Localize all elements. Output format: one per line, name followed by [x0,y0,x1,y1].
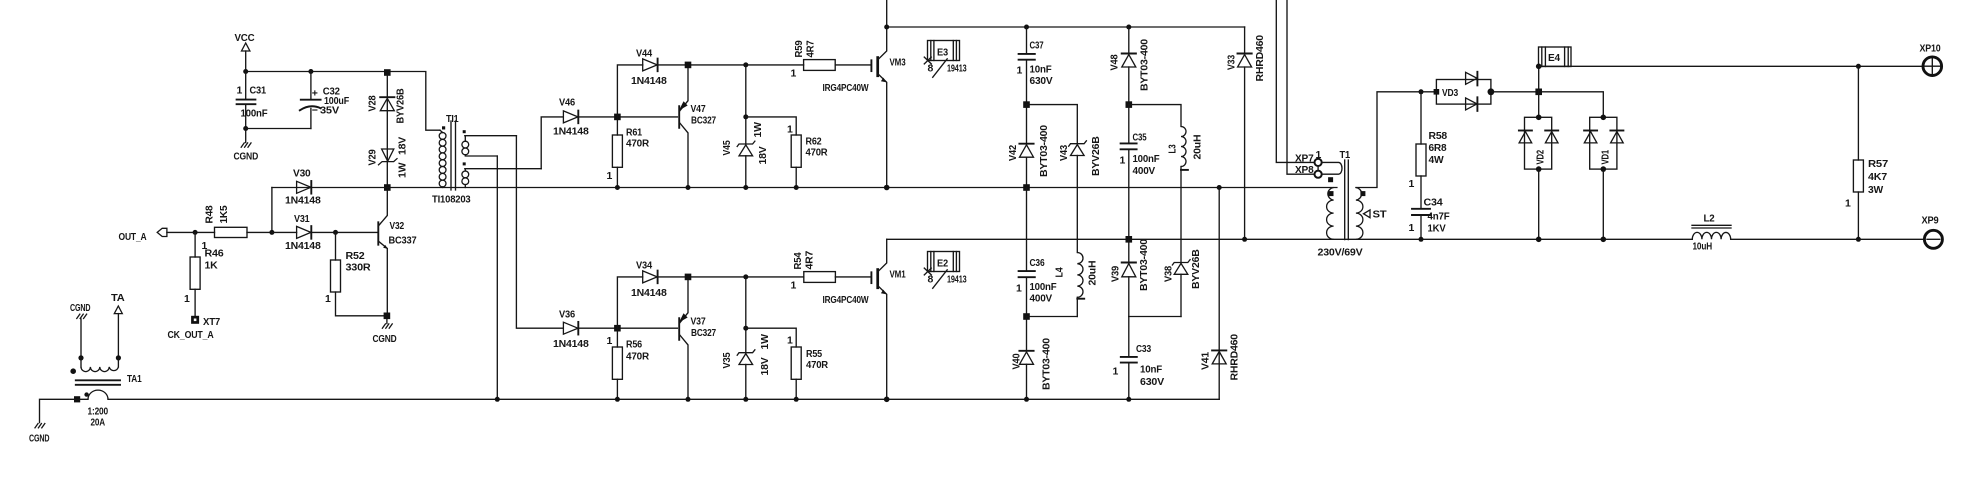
svg-text:1: 1 [1409,222,1415,234]
capacitor C34 4n7F 1KV [1409,197,1451,240]
svg-text:E4: E4 [1548,52,1560,64]
wire T11 sec1 top to V36 row [516,136,563,329]
package E4 [1539,47,1572,67]
node V48 on top rail [1126,25,1131,30]
svg-text:3W: 3W [1868,184,1883,196]
svg-text:OUT_A: OUT_A [119,231,147,243]
wire C36 junction to L4 [1027,316,1078,318]
svg-text:V43: V43 [1058,145,1070,161]
zener V42 BYT03-400 [1007,105,1050,188]
svg-text:1: 1 [787,124,793,136]
svg-text:1W: 1W [759,334,771,350]
svg-text:BYT03-400: BYT03-400 [1138,239,1150,291]
node V45 top junction [743,62,748,67]
transistor V47 BC327 [679,68,716,187]
node V45 mid junction [743,114,748,119]
node V31-R52 junction [333,230,338,235]
svg-text:1: 1 [1120,155,1126,167]
power symbol VCC [235,32,256,72]
port XP10 [1920,43,1942,76]
svg-text:1N4148: 1N4148 [553,126,589,138]
node VM3 collector on top rail [884,25,889,30]
node V40 on bottom rail [1024,397,1029,402]
port XP9 [1922,215,1943,249]
diode V40 BYT03-400 [1011,317,1053,400]
zener V45 18V 1W [721,65,769,188]
node R57 top junction [1856,64,1861,69]
svg-text:L4: L4 [1054,267,1066,277]
zener V29 18V 1W [367,137,409,178]
node OUT_A junction [193,230,198,235]
diode V28 BYV26B [367,88,407,124]
svg-text:V39: V39 [1110,266,1122,282]
svg-text:1: 1 [607,170,613,182]
svg-text:TA: TA [111,292,125,304]
svg-text:R58: R58 [1429,130,1448,142]
svg-text:V34: V34 [636,260,652,272]
wire E4 riser [1538,66,1540,117]
resistor R58 6R8 4W [1409,92,1448,209]
svg-text:BYV26B: BYV26B [1190,249,1202,289]
svg-text:TA1: TA1 [127,373,142,385]
wire V36 to junction and base [578,327,678,329]
wire C31-C32 bottom link [246,128,311,130]
svg-text:V30: V30 [293,168,311,180]
node V42 bottom on mid rail [1023,184,1030,191]
diode V46 1N4148 [553,97,589,138]
node C37 on top rail [1024,25,1029,30]
svg-text:1: 1 [1017,65,1023,77]
wire riser to V34 row [617,277,642,328]
wire snubber rail y239 [887,238,1693,240]
node V28 top junction [384,69,391,76]
node V46-R61 junction [614,114,621,121]
wire V39-V38 tie [1129,316,1181,318]
inductor L2 10uH [1692,213,1731,253]
svg-text:TI108203: TI108203 [432,194,471,206]
svg-text:1N4148: 1N4148 [631,287,667,299]
node C37 bottom junction [1023,101,1030,108]
node VM3 emitter on mid rail [884,185,890,191]
node C35 bottom junction [1126,236,1133,243]
svg-text:ST: ST [1373,209,1388,221]
svg-text:V40: V40 [1011,353,1023,369]
node VD2 on snubber rail [1536,237,1542,243]
svg-text:VD1: VD1 [1600,150,1612,165]
resistor R46 1K [184,232,224,315]
svg-text:V31: V31 [294,213,310,225]
transformer TA1 current transformer [70,358,141,429]
svg-text:4n7F: 4n7F [1428,211,1451,223]
zener V38 BYV26B [1163,249,1202,317]
wire secondary top to VD3 riser [1356,92,1437,188]
capacitor C35 100nF 400V [1120,105,1161,240]
svg-text:TI1: TI1 [446,113,459,125]
IGBT VM1 IRG4PC40W [823,239,906,399]
svg-text:T1: T1 [1340,149,1351,161]
wire mid rail A [272,187,1337,189]
node R56 on bottom rail [615,397,620,402]
svg-text:1K5: 1K5 [218,205,230,223]
node VD1 on snubber rail [1601,237,1607,243]
svg-text:V41: V41 [1200,352,1212,370]
capacitor C32 electrolytic [300,72,350,129]
svg-text:L2: L2 [1704,213,1715,225]
node V41 top on mid rail [1217,185,1222,190]
node lower rail x497 [495,397,500,402]
node C31 bottom junction [243,126,248,131]
node C33 on bottom rail [1126,397,1131,402]
capacitor C36 100nF 400V [1016,188,1057,317]
svg-text:+: + [312,88,318,100]
transformer T1 [1318,92,1437,259]
node V35 top junction [743,274,748,279]
svg-text:C31: C31 [250,85,267,97]
wire T11 sec2 top to V46 row [541,117,563,169]
secondary winding [1356,188,1363,240]
resistor R52 330R [325,232,387,315]
secondary top winding [463,130,466,133]
rectifier VD1 [1584,115,1623,240]
svg-text:10uH: 10uH [1693,241,1713,253]
diode V33 RHRD460 [1225,27,1266,239]
svg-text:1: 1 [237,85,243,97]
core [1345,160,1349,240]
node TA1 secondary right [116,355,121,360]
wire V46 to junction and base [578,116,678,118]
svg-text:18V: 18V [396,137,408,155]
node V33 bottom junction [1242,237,1247,242]
svg-text:C34: C34 [1424,197,1443,209]
svg-text:330R: 330R [346,262,372,274]
port OUT_A [119,228,215,243]
svg-text:CGND: CGND [234,151,259,163]
node C34 on snubber rail [1419,237,1424,242]
node V32 emitter junction [384,313,391,320]
svg-text:R56: R56 [626,339,642,351]
svg-text:CGND: CGND [29,433,50,445]
svg-text:XP8: XP8 [1295,164,1314,176]
zener V35 18V 1W [721,277,771,399]
node V47 emitter junction [685,62,692,69]
svg-text:L3: L3 [1167,144,1179,153]
svg-text:1N4148: 1N4148 [285,240,321,252]
node VCC-C31 junction [243,69,248,74]
node E4 bottom left junction [1536,64,1542,70]
svg-text:470R: 470R [806,359,829,371]
diode V41 RHRD460 [1200,334,1241,381]
secondary bottom winding [463,162,466,165]
svg-text:R52: R52 [346,250,365,262]
svg-text:R59: R59 [793,40,805,57]
IGBT VM3 IRG4PC40W [823,0,906,188]
wire T11 sec1 bottom to lower rail [496,156,498,399]
svg-text:VCC: VCC [235,32,256,44]
node V35 mid junction [743,326,748,331]
node VCC-C32 junction [308,69,313,74]
svg-text:100nF: 100nF [1030,281,1058,293]
node V48 bottom junction [1126,101,1133,108]
resistor R48 1K5 [202,205,272,252]
node V37 emitter junction [685,274,692,281]
svg-text:1N4148: 1N4148 [631,75,667,87]
package E3 8/19413 [924,41,967,78]
pad XT7 CK_OUT_A [168,316,221,341]
wire riser to V44 row [617,65,642,117]
wire XP7 feed [1276,0,1314,162]
resistor R54 4R7 [791,250,872,291]
wire L2 to XP9 [1731,238,1924,240]
package E2 8/19413 [924,252,967,289]
svg-text:100nF: 100nF [1133,153,1161,165]
wire V44 row [657,64,803,66]
svg-text:1W: 1W [752,122,764,138]
svg-text:4R7: 4R7 [804,250,816,269]
diode V39 BYT03-400 [1110,239,1151,317]
svg-text:20A: 20A [91,417,106,429]
diode V48 BYT03-400 [1109,27,1151,105]
svg-text:RHRD460: RHRD460 [1254,35,1266,82]
svg-text:CK_OUT_A: CK_OUT_A [168,329,215,341]
svg-text:V48: V48 [1109,54,1121,70]
svg-text:VD3: VD3 [1442,87,1458,99]
inductor L4 20uH [1054,253,1099,317]
node V35 on bottom rail [743,397,748,402]
wire OUT_A lead [167,231,215,233]
node R55 on bottom rail [794,397,799,402]
svg-text:1N4148: 1N4148 [285,195,321,207]
svg-text:1: 1 [787,335,793,347]
pin XP7 [1295,149,1322,166]
svg-text:470R: 470R [626,138,650,150]
svg-text:1: 1 [607,335,613,347]
svg-text:1: 1 [1016,283,1022,295]
pin XP8 [1295,164,1322,178]
svg-text:BYT03-400: BYT03-400 [1040,338,1052,390]
svg-text:V44: V44 [636,48,652,60]
resistor R55 470R [787,335,829,400]
svg-text:V47: V47 [691,103,706,115]
svg-text:19413: 19413 [947,274,967,286]
wire VD3 to VD1 riser [1491,92,1603,118]
svg-text:V46: V46 [559,97,575,109]
node R57 on snubber rail [1856,237,1861,242]
svg-text:CGND: CGND [373,333,397,345]
svg-text:20uH: 20uH [1087,261,1099,286]
svg-text:1K: 1K [205,260,219,272]
svg-text:20uH: 20uH [1192,135,1204,160]
wire top rail [887,26,1245,28]
wire R48 junction riser [271,188,273,233]
node E4-VD2 junction [1535,89,1542,96]
ground CGND bottom left [29,423,50,445]
svg-text:1: 1 [1409,178,1415,190]
svg-text:630V: 630V [1140,376,1164,388]
svg-text:XP9: XP9 [1922,215,1939,227]
svg-text:V38: V38 [1163,266,1175,282]
diode V34 1N4148 [631,260,667,300]
svg-text:V29: V29 [367,149,379,165]
node C36 bottom junction [1023,313,1030,320]
zener V43 BYV26B [1058,136,1102,253]
wire E4 to XP10 [1539,65,1922,67]
svg-text:8: 8 [928,63,934,75]
ground CGND under V32 [373,319,397,345]
svg-text:6R8: 6R8 [1429,142,1447,154]
capacitor C31 [237,72,269,129]
svg-text:V32: V32 [390,220,405,232]
svg-text:10nF: 10nF [1030,64,1053,76]
rectifier VD3 [1434,72,1495,111]
primary top section XP7-XP8 loop [1322,162,1342,174]
wire V28-V29 column [386,75,388,188]
svg-text:E3: E3 [937,47,948,59]
diode V44 1N4148 [631,48,667,88]
wire V31 to V32 base [272,231,378,233]
svg-text:R48: R48 [204,205,216,223]
resistor R57 4K7 3W [1845,66,1888,239]
resistor R62 470R [787,124,828,188]
svg-text:8: 8 [928,274,934,286]
svg-text:V45: V45 [721,140,733,155]
svg-text:1N4148: 1N4148 [553,338,589,350]
svg-text:230V/69V: 230V/69V [1318,247,1363,259]
wire bottom rail [108,398,1219,400]
svg-text:1: 1 [325,293,331,305]
capacitor C33 10nF 630V [1113,317,1165,400]
node V37 collector on bottom rail [686,397,691,402]
svg-text:IRG4PC40W: IRG4PC40W [823,82,869,94]
wire V48 junction to L3 [1129,105,1181,127]
svg-text:BC337: BC337 [389,235,417,247]
node V29 bottom junction on mid rail [384,184,391,191]
svg-text:VD2: VD2 [1535,150,1547,165]
svg-text:XT7: XT7 [203,316,220,328]
svg-text:100nF: 100nF [241,108,269,120]
svg-text:1: 1 [791,68,797,80]
wire V35 to R55 [746,328,796,347]
node R62 on mid rail [794,185,799,190]
wire V34 row [657,276,804,278]
svg-text:1: 1 [1113,366,1119,378]
diode V30 1N4148 [285,168,321,207]
svg-text:4R7: 4R7 [805,40,817,57]
svg-text:1: 1 [791,280,797,292]
node V47 collector on mid rail [686,185,691,190]
ground CGND at TA1 secondary [70,302,91,358]
node TA1 secondary left [78,355,83,360]
node R48-V31 junction [269,230,274,235]
node V36-R56 junction [614,325,621,332]
wire V45 to R62 [746,117,796,135]
svg-text:BYV26B: BYV26B [394,88,406,124]
svg-text:V33: V33 [1225,55,1237,70]
svg-text:R57: R57 [1868,158,1888,170]
svg-text:1W: 1W [396,162,408,178]
svg-text:VM1: VM1 [890,269,906,281]
svg-text:XP10: XP10 [1920,43,1941,55]
svg-text:VM3: VM3 [890,57,906,69]
svg-text:E2: E2 [937,258,948,270]
svg-text:470R: 470R [626,351,650,363]
port TA [111,292,125,358]
core [451,121,456,190]
inductor L3 20uH [1167,127,1204,263]
svg-text:V36: V36 [559,309,575,321]
svg-text:BYT03-400: BYT03-400 [1138,39,1150,91]
rectifier VD2 [1519,115,1558,240]
wire VCC stub [245,51,247,72]
svg-text:BC327: BC327 [691,115,716,127]
svg-text:XP7: XP7 [1295,153,1314,165]
svg-text:V42: V42 [1007,145,1019,161]
transformer T11 TI108203 [432,113,541,206]
svg-text:18V: 18V [757,146,769,164]
svg-text:C36: C36 [1030,257,1045,269]
node R61 on mid rail [615,185,620,190]
wire bottom rail left end to CGND [40,399,89,422]
svg-text:R54: R54 [792,252,804,269]
node R58 top junction [1419,89,1424,94]
svg-text:IRG4PC40W: IRG4PC40W [823,294,869,306]
svg-text:BC327: BC327 [691,327,716,339]
primary winding [439,133,446,140]
svg-text:C37: C37 [1030,40,1044,52]
svg-text:V35: V35 [721,352,733,368]
svg-text:V37: V37 [691,316,706,328]
svg-text:V28: V28 [367,95,379,111]
capacitor C37 10nF 630V [1017,27,1053,105]
svg-text:35V: 35V [320,105,339,117]
transistor V32 BC337 [378,191,417,313]
svg-text:18V: 18V [759,357,771,375]
node V45 on mid rail [743,185,748,190]
svg-text:470R: 470R [806,147,829,159]
wire V41 column [1218,188,1220,400]
svg-text:400V: 400V [1030,293,1053,305]
svg-text:C35: C35 [1133,132,1147,144]
svg-text:R46: R46 [205,248,224,260]
resistor R56 470R [607,332,650,400]
wire XP8 feed [1287,0,1314,174]
node VM1 emitter on bottom rail [884,397,890,403]
wire VCC top rail to corner [246,72,440,131]
ground CGND under C31 [234,129,259,163]
svg-text:10nF: 10nF [1140,364,1163,376]
svg-text:630V: 630V [1030,75,1053,87]
svg-text:1KV: 1KV [1428,223,1446,235]
svg-text:4K7: 4K7 [1868,171,1887,183]
resistor R59 4R7 [791,40,872,79]
svg-text:400V: 400V [1133,165,1156,177]
primary main winding [1327,188,1334,240]
svg-text:CGND: CGND [70,302,91,314]
svg-text:19413: 19413 [947,63,967,75]
svg-text:1: 1 [184,293,190,305]
svg-text:4W: 4W [1429,154,1444,166]
transistor V37 BC327 [679,280,716,399]
resistor R61 470R [607,120,650,187]
svg-text:BYV26B: BYV26B [1090,136,1102,176]
diode V36 1N4148 [553,309,589,351]
svg-text:BYT03-400: BYT03-400 [1038,125,1050,177]
svg-text:RHRD460: RHRD460 [1228,334,1240,381]
svg-text:1: 1 [1845,198,1851,210]
wire C37 junction to V43 [1027,105,1078,144]
diode V31 1N4148 [272,213,378,252]
svg-text:C33: C33 [1136,343,1151,355]
